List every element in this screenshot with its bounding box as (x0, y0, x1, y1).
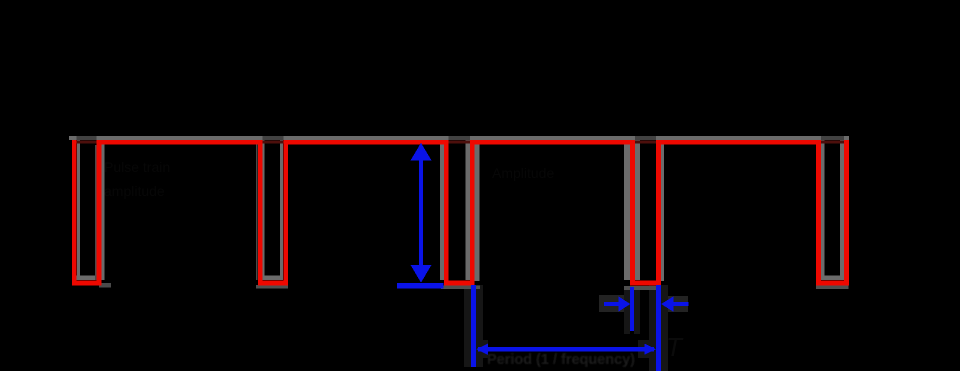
svg-text:Pulse train: Pulse train (104, 159, 170, 175)
svg-text:amplitude: amplitude (104, 183, 165, 199)
svg-text:T: T (666, 332, 684, 362)
svg-text:Period (1 / frequency): Period (1 / frequency) (487, 352, 635, 368)
svg-text:Amplitude: Amplitude (492, 165, 554, 181)
